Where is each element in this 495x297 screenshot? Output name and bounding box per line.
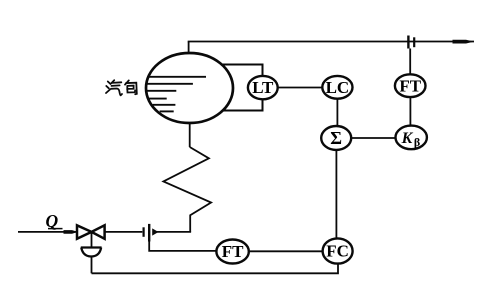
Q underline — [48, 228, 63, 230]
wire: LT to LC — [278, 87, 323, 89]
wire: LT bracket top — [222, 65, 263, 77]
wire: steam orifice tap down to FT — [409, 49, 411, 75]
svg-text:Σ: Σ — [330, 128, 342, 148]
wire: summer down to FC — [335, 150, 337, 239]
downcomer riser coil zigzag — [163, 147, 211, 232]
wire: Kβ up to FT — [409, 97, 411, 126]
wire: summer to Kβ — [351, 137, 395, 139]
wire: steam output line — [188, 41, 474, 43]
wire: LC down to summer — [336, 99, 338, 127]
control valve body — [77, 225, 105, 239]
svg-text:K: K — [401, 130, 414, 147]
wire: control signal return line — [92, 264, 339, 274]
wire: feedwater line left — [18, 231, 77, 233]
steam flow arrowhead — [453, 40, 475, 44]
wire: FT to FC — [249, 250, 323, 252]
label 汽包 (hand-drawn glyphs) — [106, 80, 137, 95]
feedwater arrowhead — [64, 230, 79, 234]
flow controller FC — [323, 238, 353, 263]
wire: valve stem — [91, 232, 93, 247]
orifice plate bars on steam line — [407, 36, 409, 49]
level transmitter LT — [248, 76, 278, 99]
small arrowhead after orifice — [152, 228, 158, 235]
wire: actuator down — [91, 257, 93, 274]
svg-text:LC: LC — [326, 78, 350, 97]
svg-text:FT: FT — [222, 242, 244, 261]
svg-text:β: β — [414, 135, 420, 149]
wire: drum top riser — [188, 42, 190, 54]
wire: valve to feed orifice — [105, 231, 143, 233]
wire: drum bottom to downcomer — [189, 123, 191, 147]
wire: LT bracket bottom — [223, 99, 263, 111]
svg-text:LT: LT — [252, 78, 274, 97]
汽 water radical — [108, 82, 111, 85]
svg-text:FT: FT — [399, 76, 421, 95]
gain block Kβ — [396, 126, 427, 150]
valve actuator dome — [81, 248, 102, 257]
汽 qi part — [111, 80, 114, 83]
summer Σ — [321, 126, 351, 150]
steam flow transmitter FT — [395, 74, 426, 97]
包 — [125, 80, 129, 84]
steam drum vessel 汽包 — [146, 53, 233, 123]
water level lines inside drum — [146, 77, 206, 112]
feed flow transmitter FT — [216, 240, 248, 264]
wire: feed orifice tap to FT — [149, 242, 216, 251]
orifice plate bars on feed line — [143, 227, 145, 237]
level controller LC — [322, 76, 352, 99]
svg-text:FC: FC — [326, 242, 349, 261]
wire: orifice to riser bottom — [155, 231, 191, 233]
